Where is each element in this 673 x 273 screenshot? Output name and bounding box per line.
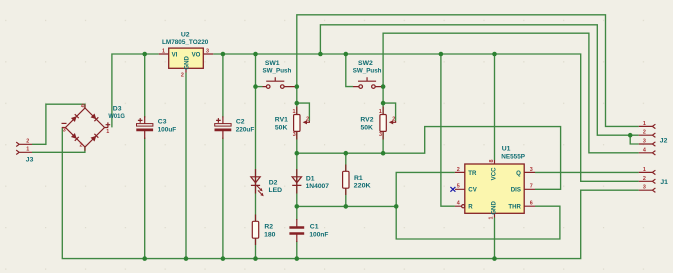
junction rail VCC riser bbox=[492, 52, 497, 57]
svg-text:6: 6 bbox=[530, 201, 533, 207]
svg-text:SW_Push: SW_Push bbox=[263, 68, 292, 75]
junction SW1 right bbox=[295, 84, 300, 89]
no-connect X on CV pin 5 bbox=[450, 187, 455, 192]
svg-text:2: 2 bbox=[643, 176, 646, 182]
junction trigger line R1 bbox=[344, 204, 349, 209]
svg-text:NE555P: NE555P bbox=[501, 153, 525, 160]
svg-text:R2: R2 bbox=[264, 224, 273, 231]
wire RV1 wiper loop bbox=[297, 103, 310, 121]
svg-text:J1: J1 bbox=[660, 179, 668, 186]
wire VCC rail to reset pin R bbox=[441, 54, 455, 206]
wire C2 column bbox=[222, 54, 224, 118]
junction gnd U2 bbox=[184, 256, 189, 261]
wire J3 pin2 to bridge AC top bbox=[32, 104, 85, 144]
wire VCC riser to U1 pin8 bbox=[494, 54, 496, 160]
wire U1 GND pin1 to ground rail bbox=[494, 218, 496, 259]
pushbutton SW1 bbox=[263, 60, 295, 89]
capacitor C3 bbox=[136, 116, 176, 139]
svg-text:2: 2 bbox=[181, 73, 184, 79]
junction rail SW1 feed bbox=[253, 52, 258, 57]
svg-text:8: 8 bbox=[489, 160, 495, 163]
svg-text:4: 4 bbox=[457, 201, 460, 207]
diode D1 bbox=[292, 169, 329, 194]
wire R1 column bbox=[345, 153, 347, 206]
connector J1 bbox=[639, 167, 668, 193]
svg-text:C1: C1 bbox=[310, 224, 319, 231]
svg-text:RV2: RV2 bbox=[360, 116, 373, 123]
svg-text:LM7805_TO220: LM7805_TO220 bbox=[162, 39, 209, 46]
junction RV1 top bbox=[295, 101, 300, 106]
junction RV2 top bbox=[381, 101, 386, 106]
svg-text:DIS: DIS bbox=[511, 187, 521, 194]
wire +5V rail U2 VO to right end, down to J1 pin2 bbox=[213, 54, 639, 181]
svg-text:3: 3 bbox=[643, 139, 646, 145]
svg-text:J2: J2 bbox=[660, 138, 668, 145]
svg-text:D3: D3 bbox=[113, 106, 122, 113]
svg-text:D2: D2 bbox=[269, 179, 278, 186]
svg-text:CV: CV bbox=[468, 187, 477, 194]
svg-text:50K: 50K bbox=[361, 125, 374, 132]
svg-text:2: 2 bbox=[643, 130, 646, 136]
svg-text:1: 1 bbox=[643, 121, 646, 127]
svg-text:U2: U2 bbox=[181, 31, 190, 38]
bridge diode bottom-left bbox=[71, 133, 79, 141]
wire J3 pin1 to bridge AC bottom bbox=[32, 147, 85, 153]
svg-text:3: 3 bbox=[206, 48, 209, 54]
svg-text:1N4007: 1N4007 bbox=[306, 183, 330, 190]
junction J2 pin2-3 bbox=[628, 133, 633, 138]
wire trigger line to C1 top bbox=[297, 205, 396, 207]
wire D1 C1 column bbox=[296, 153, 298, 220]
svg-text:1: 1 bbox=[379, 109, 382, 115]
svg-text:220uF: 220uF bbox=[236, 127, 255, 134]
svg-text:C3: C3 bbox=[158, 118, 167, 125]
svg-text:180: 180 bbox=[264, 232, 276, 239]
svg-text:1: 1 bbox=[26, 146, 29, 152]
capacitor C2 bbox=[215, 116, 255, 139]
potentiometer RV1 bbox=[275, 107, 310, 140]
svg-text:LED: LED bbox=[269, 187, 283, 194]
led D2 bbox=[251, 169, 282, 196]
junction rail reset riser bbox=[439, 52, 444, 57]
svg-text:4: 4 bbox=[81, 104, 84, 110]
svg-text:GND: GND bbox=[183, 55, 190, 69]
svg-text:Q: Q bbox=[516, 170, 521, 177]
bridge diode top-right bbox=[91, 113, 99, 121]
wire TR pin to trigger riser bbox=[396, 172, 560, 239]
svg-text:3: 3 bbox=[379, 132, 382, 138]
wire Q output to J1 pin1 bbox=[535, 171, 639, 173]
bridge diode bottom-right bbox=[91, 134, 99, 142]
svg-text:R1: R1 bbox=[354, 175, 363, 182]
wire RV2 wiper loop bbox=[383, 103, 396, 121]
junction gnd C2 bbox=[221, 256, 226, 261]
svg-text:C2: C2 bbox=[236, 118, 245, 125]
svg-text:U1: U1 bbox=[502, 146, 511, 153]
junction D1 line R1 bbox=[344, 151, 349, 156]
connector J3 bbox=[16, 138, 33, 163]
timer U1 NE555P bbox=[450, 146, 535, 220]
svg-text:J3: J3 bbox=[26, 156, 34, 163]
wire SW1 right riser down through RV1 to D1 line bbox=[296, 87, 298, 154]
svg-text:5: 5 bbox=[457, 184, 460, 190]
svg-text:3: 3 bbox=[293, 132, 296, 138]
junction D1 line RV2 bbox=[381, 151, 386, 156]
svg-text:SW1: SW1 bbox=[265, 60, 280, 67]
svg-text:100uF: 100uF bbox=[158, 127, 177, 134]
svg-text:100nF: 100nF bbox=[309, 231, 328, 238]
resistor R2 bbox=[252, 215, 275, 246]
wire SW2 right riser down through RV2 to D1 line bbox=[382, 87, 384, 154]
wire SW1 right terminal riser to J2 pin1 line bbox=[297, 15, 639, 127]
svg-text:2: 2 bbox=[26, 138, 29, 144]
wire SW1 feed / LED D2 / R2 column bbox=[255, 54, 257, 259]
potentiometer RV2 bbox=[360, 107, 395, 140]
wire +5V riser to J2 pins2-3 bbox=[320, 25, 638, 135]
svg-text:2: 2 bbox=[457, 167, 460, 173]
svg-text:3: 3 bbox=[530, 167, 533, 173]
svg-text:7: 7 bbox=[530, 184, 533, 190]
svg-text:1: 1 bbox=[106, 129, 109, 135]
svg-text:2: 2 bbox=[306, 117, 309, 123]
regulator U2 LM7805 bbox=[159, 31, 213, 78]
junction gnd C1 bbox=[295, 256, 300, 261]
svg-text:VO: VO bbox=[192, 51, 201, 58]
svg-text:50K: 50K bbox=[275, 125, 288, 132]
svg-text:3: 3 bbox=[63, 128, 66, 134]
svg-text:VCC: VCC bbox=[491, 167, 498, 180]
junction SW1 left bbox=[253, 84, 258, 89]
svg-text:D1: D1 bbox=[306, 175, 315, 182]
junction gnd U1 bbox=[492, 256, 497, 261]
wire U2 GND down to ground rail bbox=[185, 73, 187, 259]
junction gnd C3 bbox=[142, 256, 147, 261]
svg-text:1: 1 bbox=[489, 217, 495, 220]
svg-text:GND: GND bbox=[491, 201, 498, 215]
wire SW2 left feed bbox=[346, 54, 353, 87]
svg-text:SW2: SW2 bbox=[358, 60, 373, 67]
junction rail SW2 feed bbox=[344, 52, 349, 57]
wire discharge net D1 line to DIS pin bbox=[297, 127, 561, 190]
svg-text:THR: THR bbox=[508, 204, 521, 211]
svg-text:1: 1 bbox=[162, 48, 165, 54]
wire J2 pin3 spur bbox=[630, 135, 639, 144]
svg-text:RV1: RV1 bbox=[275, 116, 288, 123]
bridge rectifier D3 bbox=[62, 104, 125, 151]
junction rail C3 bbox=[142, 52, 147, 57]
pushbutton SW2 bbox=[353, 60, 382, 89]
svg-text:SW_Push: SW_Push bbox=[353, 68, 382, 75]
svg-text:R: R bbox=[468, 204, 473, 211]
svg-text:VI: VI bbox=[172, 51, 178, 58]
svg-text:2: 2 bbox=[392, 117, 395, 123]
svg-text:220K: 220K bbox=[354, 183, 371, 190]
junction trigger line C1 bbox=[295, 204, 300, 209]
wire C3 column bbox=[144, 54, 146, 118]
junction SW2 right bbox=[381, 84, 386, 89]
wire SW1 left terminal bbox=[256, 86, 263, 88]
junction gnd R2 bbox=[253, 256, 258, 261]
svg-text:TR: TR bbox=[468, 170, 477, 177]
wire bridge minus down to ground rail bbox=[62, 128, 639, 259]
junction trigger riser bbox=[394, 204, 399, 209]
svg-text:1: 1 bbox=[293, 109, 296, 115]
connector J2 bbox=[639, 121, 668, 155]
svg-text:2: 2 bbox=[80, 142, 83, 148]
resistor R1 bbox=[343, 165, 371, 196]
capacitor C1 bbox=[289, 219, 328, 242]
junction rail J2-23 riser bbox=[318, 52, 323, 57]
junction rail C2 bbox=[221, 52, 226, 57]
wire main +in rail from bridge to U2 VI bbox=[112, 54, 159, 127]
junction D1 top line RV1 bbox=[295, 151, 300, 156]
svg-text:4: 4 bbox=[643, 147, 646, 153]
svg-text:W01G: W01G bbox=[108, 113, 125, 120]
svg-text:3: 3 bbox=[643, 185, 646, 191]
wire SW2 right terminal riser to J2 pin4 bbox=[383, 33, 639, 153]
svg-text:1: 1 bbox=[643, 167, 646, 173]
bridge diode top-left bbox=[71, 114, 79, 122]
